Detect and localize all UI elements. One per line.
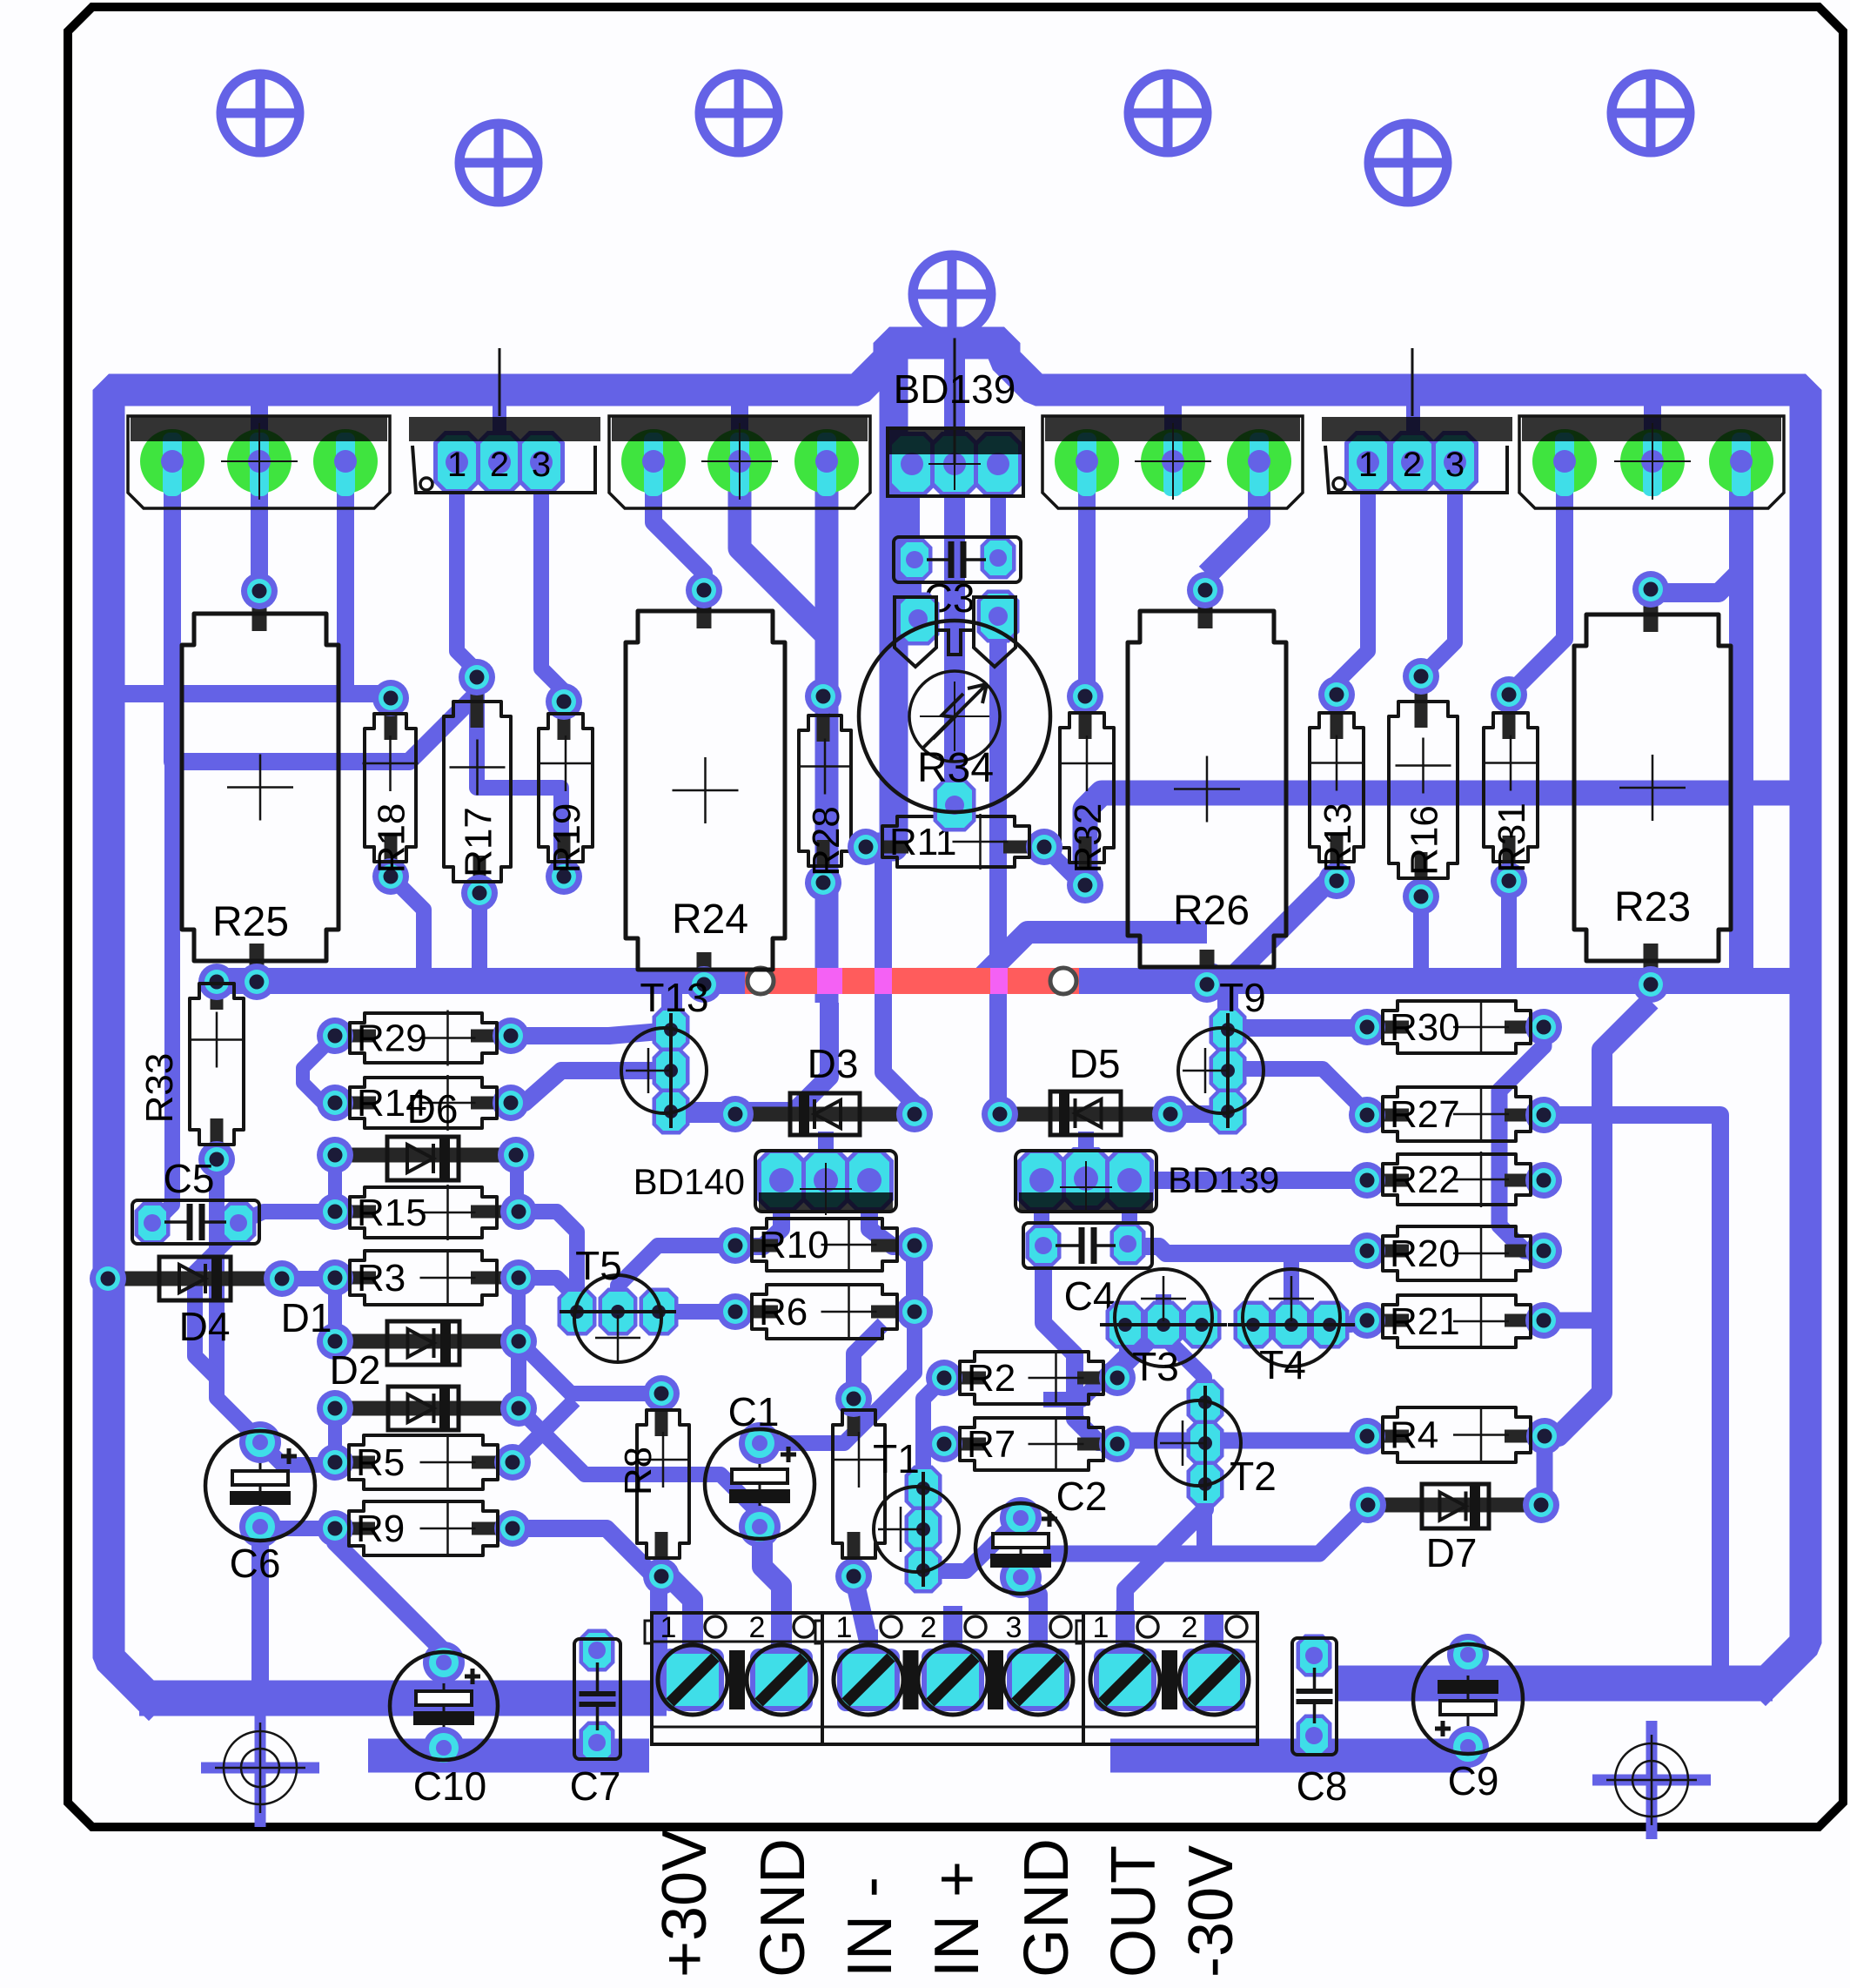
svg-text:T4: T4 [1259, 1342, 1306, 1387]
wire [1330, 1320, 1367, 1325]
wire [854, 1324, 883, 1399]
wire [908, 570, 922, 614]
svg-text:C9: C9 [1448, 1758, 1499, 1803]
wire [618, 1246, 735, 1309]
svg-text:R3: R3 [357, 1257, 406, 1300]
wire [513, 1400, 574, 1462]
jumper wire W1 [745, 968, 1079, 994]
svg-text:R34: R34 [917, 745, 994, 791]
svg-text:2: 2 [921, 1611, 937, 1644]
wire [1128, 1246, 1367, 1253]
transistor footprint Q6 [1519, 416, 1784, 508]
terminal block J1 [645, 1611, 822, 1744]
wire [457, 463, 477, 696]
wire [260, 1521, 335, 1536]
svg-text:R16: R16 [1404, 805, 1446, 876]
svg-text:R17: R17 [458, 807, 500, 877]
resistor R18 [363, 680, 419, 895]
capacitor C5 [132, 1156, 259, 1245]
svg-text:BD140: BD140 [633, 1161, 745, 1202]
mounting hole [1126, 71, 1210, 155]
svg-text:IN -: IN - [835, 1877, 905, 1978]
svg-text:R25: R25 [212, 899, 289, 945]
transistor T5 [558, 1243, 679, 1362]
resistor R2 [926, 1350, 1136, 1406]
wire [238, 1212, 335, 1223]
terminal block J2 [815, 1611, 1083, 1744]
wire [815, 463, 839, 1003]
transistor T13 [621, 975, 709, 1135]
svg-text:T13: T13 [640, 975, 708, 1020]
svg-text:R32: R32 [1067, 803, 1109, 874]
wire [1499, 1027, 1544, 1251]
wire [983, 932, 1207, 977]
svg-text:GND: GND [1012, 1838, 1082, 1978]
svg-text:BD139: BD139 [1168, 1159, 1279, 1200]
diode D6 [317, 1086, 534, 1180]
wire [660, 1304, 735, 1320]
svg-text:D5: D5 [1069, 1041, 1121, 1086]
svg-text:C5: C5 [164, 1156, 215, 1201]
wire [139, 1683, 1773, 1698]
wire [923, 1378, 944, 1488]
svg-text:R4: R4 [1390, 1414, 1438, 1457]
mounting hole [1609, 71, 1692, 155]
wire [282, 1271, 335, 1286]
wire [1284, 1255, 1299, 1325]
wire [692, 1003, 829, 1112]
wire [989, 616, 1007, 1114]
wire [1501, 881, 1517, 981]
capacitor C3 [894, 537, 1021, 621]
svg-text:D3: D3 [808, 1041, 859, 1086]
resistor R22 [1349, 1152, 1562, 1207]
svg-text:R26: R26 [1173, 888, 1250, 934]
wire [880, 348, 908, 462]
wire [109, 343, 1806, 1698]
wire [303, 1036, 335, 1103]
svg-text:1: 1 [447, 446, 466, 484]
wire [731, 396, 748, 457]
svg-text:+30V: +30V [650, 1830, 720, 1978]
svg-text:R8: R8 [617, 1447, 660, 1495]
wire [217, 1159, 260, 1441]
svg-text:R24: R24 [672, 897, 748, 943]
capacitor C10 [390, 1642, 498, 1809]
resistor R32 [1059, 678, 1115, 903]
svg-text:3: 3 [532, 446, 551, 484]
wire [117, 685, 391, 702]
diode D4 [90, 1257, 300, 1349]
resistor R30 [1349, 999, 1562, 1055]
wire [511, 1031, 670, 1036]
wire [1421, 463, 1455, 676]
svg-text:R15: R15 [357, 1192, 427, 1234]
wire [1020, 1576, 1038, 1656]
wire [1729, 463, 1753, 981]
transistor BD140 [633, 1149, 896, 1215]
svg-text:IN +: IN + [922, 1861, 992, 1978]
svg-text:R19: R19 [546, 803, 588, 874]
svg-text:R29: R29 [357, 1018, 427, 1060]
wire [1406, 396, 1420, 457]
svg-text:C2: C2 [1056, 1474, 1108, 1519]
resistor R16 [1389, 658, 1458, 915]
diode D5 [982, 1041, 1189, 1135]
wire [854, 1576, 868, 1656]
wire [172, 463, 477, 762]
resistor R29 [317, 1011, 529, 1066]
wire [328, 1155, 342, 1212]
mounting hole [910, 252, 994, 336]
wire [195, 1229, 238, 1378]
svg-text:R6: R6 [759, 1291, 808, 1333]
transistor T9 [1178, 975, 1266, 1135]
svg-text:OUT: OUT [1099, 1845, 1169, 1978]
wire [1544, 1115, 1720, 1682]
svg-text:3: 3 [1006, 1611, 1022, 1644]
wire [153, 694, 172, 1224]
wire [944, 462, 965, 803]
wire [859, 1629, 878, 1656]
resistor R24 [626, 572, 785, 1003]
wire [1085, 793, 1794, 885]
svg-text:3: 3 [1445, 446, 1465, 484]
capacitor C8 [1292, 1635, 1347, 1810]
svg-text:R22: R22 [1390, 1159, 1460, 1201]
wire [337, 463, 354, 694]
wire [472, 893, 487, 981]
wire [1043, 1505, 1368, 1554]
wire [511, 1071, 670, 1103]
svg-text:D6: D6 [407, 1086, 459, 1132]
capacitor C9 [1413, 1634, 1523, 1803]
svg-text:R28: R28 [805, 806, 848, 876]
wire [541, 463, 564, 702]
svg-text:D7: D7 [1426, 1530, 1478, 1575]
resistor R28 [797, 678, 853, 901]
wire [1043, 1268, 1117, 1442]
svg-text:1: 1 [1358, 446, 1377, 484]
resistor R17 [444, 659, 511, 911]
transistor footprint Q4 [1042, 416, 1303, 508]
mounting hole [1366, 121, 1450, 205]
transistor BD139 [1015, 1147, 1279, 1213]
wire [1117, 1433, 1367, 1449]
wire [477, 677, 561, 876]
wire [1163, 1336, 1204, 1401]
wire [904, 474, 920, 557]
wire [943, 1606, 962, 1656]
wire [1537, 1436, 1553, 1505]
wire [1078, 1132, 1094, 1175]
wire [519, 1212, 577, 1309]
wire [762, 1527, 781, 1654]
wire [687, 1105, 735, 1123]
resistor R33 [138, 964, 245, 1178]
wire [512, 1278, 526, 1341]
resistor R14 [317, 1075, 529, 1131]
wire [1544, 1313, 1599, 1329]
svg-text:R23: R23 [1614, 884, 1691, 930]
capacitor C4 [1023, 1223, 1152, 1320]
svg-text:R9: R9 [356, 1508, 405, 1550]
wire [1217, 981, 1238, 1028]
resistor R10 [717, 1217, 933, 1273]
svg-text:C8: C8 [1297, 1763, 1348, 1809]
diode D3 [717, 1041, 933, 1135]
svg-text:2: 2 [490, 446, 509, 484]
svg-text:T5: T5 [575, 1243, 622, 1288]
svg-text:R13: R13 [1317, 803, 1359, 873]
svg-text:R21: R21 [1390, 1300, 1460, 1343]
wire [1149, 1172, 1367, 1189]
resistor R5 [317, 1434, 531, 1490]
wire [1207, 463, 1259, 574]
svg-text:R10: R10 [759, 1224, 829, 1266]
wire [990, 474, 1006, 558]
diode D2 [317, 1347, 537, 1430]
resistor R1 [831, 1380, 887, 1595]
terminal block J3 [1076, 1611, 1257, 1744]
wire [519, 1278, 585, 1306]
resistor R3 [317, 1250, 537, 1306]
wire [1644, 396, 1661, 457]
wire [870, 462, 894, 847]
svg-text:R27: R27 [1390, 1093, 1460, 1136]
wire [760, 1312, 915, 1443]
diode D7 [1350, 1484, 1559, 1575]
wire [1509, 463, 1565, 695]
wire [251, 483, 268, 591]
wire [944, 348, 965, 462]
resistor R23 [1574, 571, 1731, 1003]
wire [328, 1412, 342, 1462]
wire [328, 1278, 342, 1341]
mounting hole [218, 71, 302, 155]
wire [1116, 1610, 1135, 1656]
svg-text:R18: R18 [371, 803, 413, 874]
fiducial [201, 1709, 319, 1827]
capacitor C1 [705, 1389, 814, 1548]
wire [251, 1527, 269, 1697]
wire [513, 1528, 659, 1684]
resistor R27 [1349, 1086, 1562, 1142]
diode D1 [281, 1295, 537, 1365]
wire [1122, 1201, 1137, 1240]
capacitor C6 [205, 1421, 315, 1586]
wire [818, 1132, 834, 1177]
wire [1043, 1325, 1127, 1400]
svg-text:R5: R5 [356, 1441, 405, 1484]
transistor T4 [1228, 1269, 1355, 1387]
resistor R6 [717, 1284, 933, 1340]
wire [1228, 1019, 1367, 1037]
wire [661, 984, 682, 1031]
resistor R21 [1349, 1293, 1562, 1349]
wire [1204, 1615, 1223, 1656]
resistor R31 [1483, 676, 1538, 899]
svg-text:C7: C7 [570, 1763, 621, 1809]
wire [1164, 396, 1182, 457]
svg-text:-30V: -30V [1176, 1845, 1246, 1978]
via junction [1191, 963, 1228, 999]
wire [1029, 1610, 1048, 1656]
svg-text:C1: C1 [728, 1389, 780, 1434]
wire [1228, 1069, 1357, 1110]
wire [251, 396, 268, 457]
capacitor C7 [570, 1629, 621, 1810]
resistor R11 [848, 814, 1062, 870]
resistor R20 [1349, 1226, 1562, 1281]
wire [217, 968, 1806, 994]
wire [1548, 1001, 1651, 1436]
transistor T2 [1156, 1380, 1277, 1508]
transistor BD139 (top) [888, 312, 1023, 496]
wire [391, 876, 424, 981]
wire [519, 1341, 661, 1394]
svg-text:T1: T1 [873, 1436, 920, 1481]
svg-text:1: 1 [1093, 1611, 1109, 1644]
resistor R4 [1349, 1407, 1563, 1463]
transistor footprint Q1 [128, 416, 390, 508]
transistor footprint Q2 [409, 348, 600, 494]
resistor R26 [1128, 572, 1286, 1003]
wire [1125, 1482, 1205, 1656]
svg-text:2: 2 [749, 1611, 766, 1644]
svg-text:2: 2 [1403, 446, 1422, 484]
svg-text:D4: D4 [179, 1304, 231, 1349]
svg-text:D1: D1 [281, 1295, 332, 1340]
wire [1078, 463, 1096, 695]
svg-text:GND: GND [748, 1838, 818, 1978]
trimmer R34 [859, 590, 1050, 832]
wire [1196, 1481, 1212, 1554]
svg-text:T3: T3 [1132, 1344, 1179, 1389]
wire [667, 1575, 693, 1654]
svg-text:R33: R33 [138, 1053, 181, 1124]
svg-text:R31: R31 [1491, 803, 1533, 873]
resistor R15 [317, 1185, 537, 1240]
wire [883, 847, 915, 1114]
wire [923, 1522, 1020, 1571]
transistor T1 [873, 1436, 959, 1594]
wire [1337, 463, 1368, 695]
transistor footprint Q5 [1322, 348, 1512, 494]
svg-text:T2: T2 [1230, 1454, 1277, 1499]
wire [511, 1341, 526, 1408]
fiducial [1592, 1721, 1711, 1839]
svg-text:2: 2 [1182, 1611, 1198, 1644]
transistor T3 [1100, 1269, 1227, 1389]
resistor R7 [926, 1416, 1136, 1472]
wire [260, 1442, 335, 1465]
svg-text:R20: R20 [1390, 1232, 1460, 1275]
mounting hole [697, 71, 781, 155]
wire [740, 463, 829, 638]
wire [1664, 570, 1741, 593]
svg-text:R30: R30 [1390, 1006, 1460, 1049]
wire [654, 463, 704, 590]
svg-text:T9: T9 [1219, 975, 1266, 1020]
transistor footprint Q3 [609, 416, 870, 508]
wire [1413, 897, 1429, 981]
resistor R19 [538, 683, 593, 895]
wire [1034, 1201, 1049, 1240]
svg-text:1: 1 [660, 1611, 677, 1644]
svg-text:R7: R7 [967, 1423, 1015, 1466]
resistor R8 [617, 1375, 691, 1595]
svg-text:C10: C10 [413, 1763, 486, 1809]
wire [1156, 1294, 1171, 1325]
wire [869, 1201, 908, 1246]
wire [815, 883, 831, 981]
wire [519, 1408, 760, 1527]
svg-text:1: 1 [836, 1611, 853, 1644]
wire [368, 1739, 1471, 1773]
resistor R25 [182, 573, 338, 1000]
svg-text:R2: R2 [967, 1357, 1015, 1400]
wire [1170, 1105, 1228, 1123]
svg-text:D2: D2 [330, 1347, 381, 1393]
capacitor C2 [975, 1474, 1107, 1598]
wire [1117, 1327, 1147, 1373]
wire [1044, 847, 1083, 885]
wire [744, 1201, 781, 1246]
wire [1229, 879, 1331, 981]
resistor R9 [317, 1501, 531, 1556]
wire [493, 396, 506, 457]
svg-text:BD139: BD139 [894, 366, 1016, 412]
svg-text:C6: C6 [230, 1541, 281, 1586]
wire [906, 1246, 923, 1312]
mounting hole [457, 121, 540, 205]
wire [510, 1158, 524, 1210]
resistor R13 [1309, 676, 1364, 899]
wire [335, 1532, 444, 1651]
